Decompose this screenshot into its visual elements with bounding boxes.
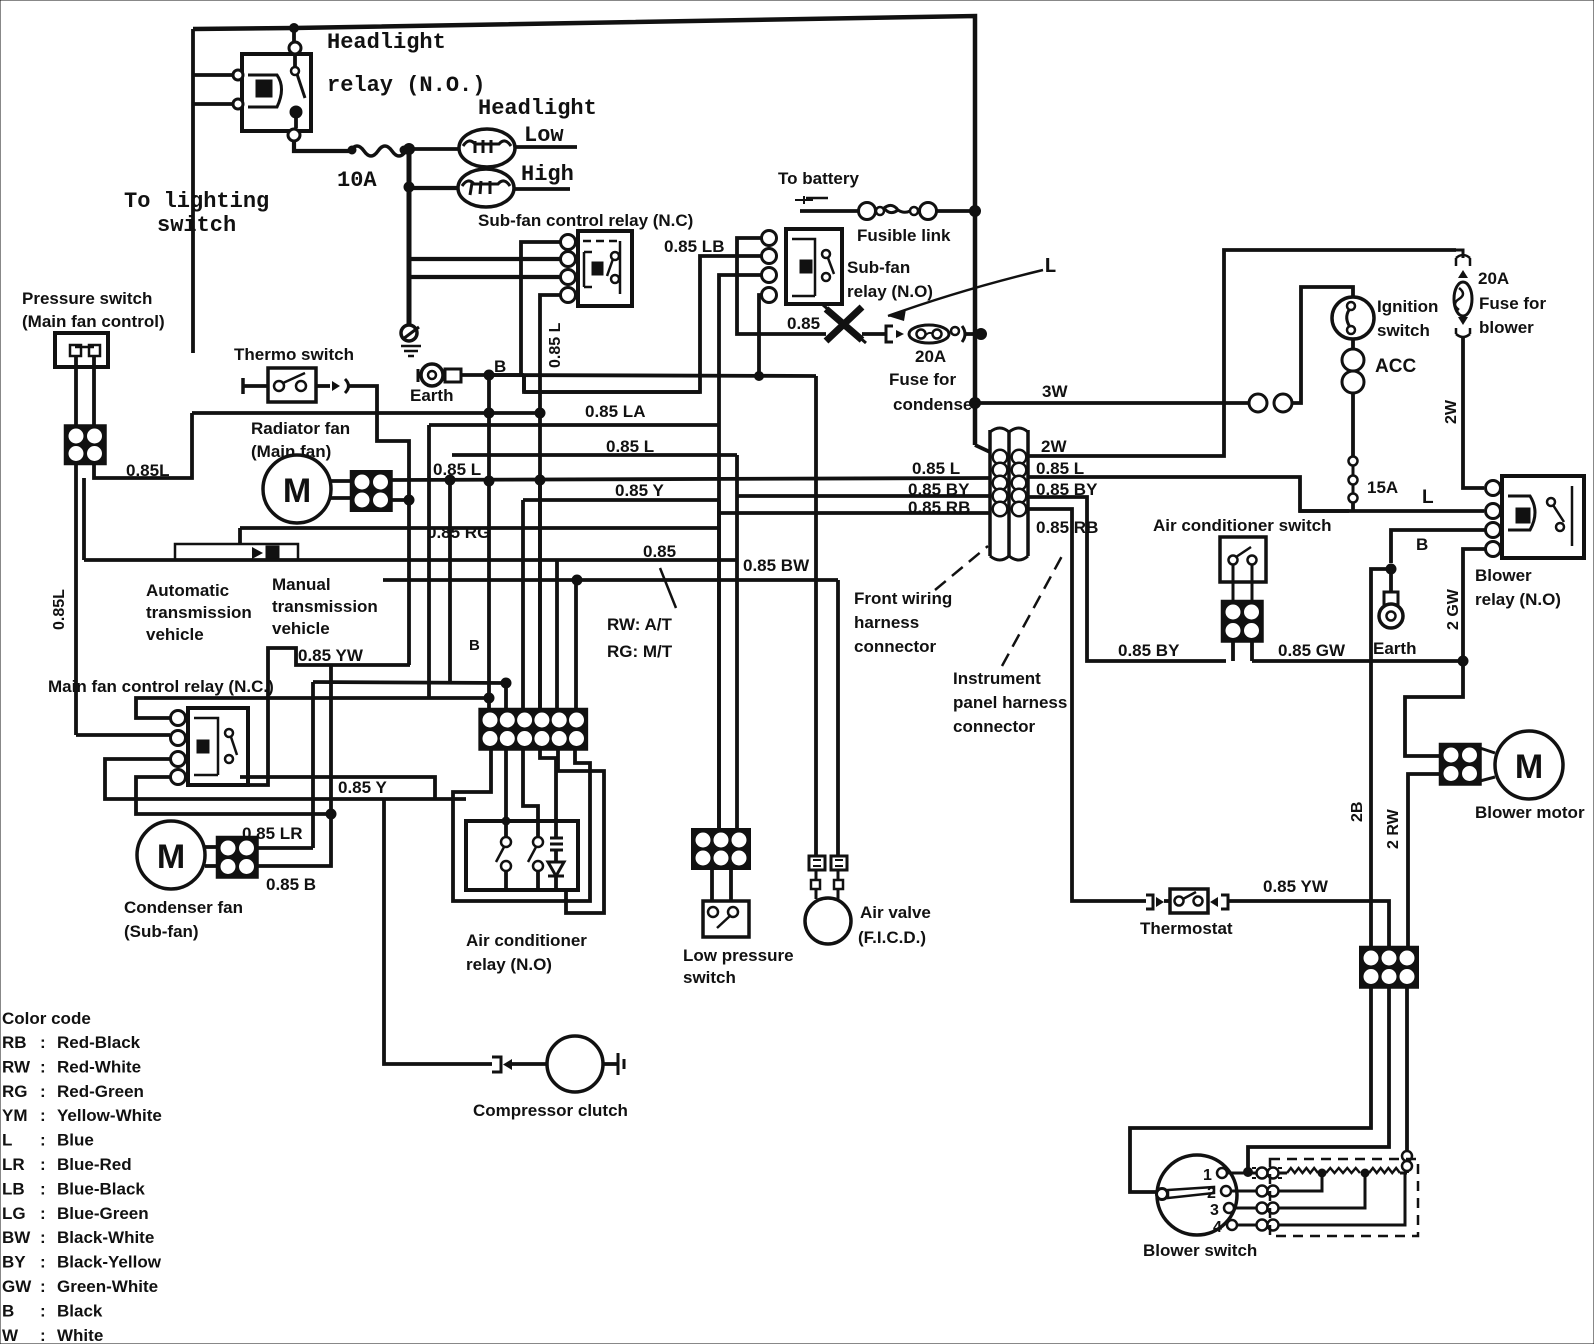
wire sub-fan relay pin1 down to 20A fuse wire [737, 238, 826, 334]
wire B line jog to sub-fan relay ground [522, 375, 526, 392]
svg-text:20A: 20A [1478, 269, 1509, 288]
svg-text:Yellow-White: Yellow-White [57, 1106, 162, 1125]
svg-text:switch: switch [157, 213, 236, 238]
contact switch2 in A/C relay [533, 837, 543, 847]
wire riser to relay coil feed [448, 480, 452, 682]
wire A/T-M/T connector stub [238, 528, 242, 544]
svg-text:panel harness: panel harness [953, 693, 1067, 712]
wire 0.85 LR riser [311, 682, 315, 848]
switch ignition switch [1332, 297, 1374, 339]
connector blower switch 2x3 [1361, 948, 1417, 987]
svg-text:0.85 LR: 0.85 LR [242, 824, 302, 843]
connector ACC pair [1342, 349, 1364, 371]
relay headlight relay (N.O.) [242, 54, 311, 131]
wire switch row1 with resistors [1227, 1172, 1256, 1175]
pin terminals sub-fan relay [762, 231, 777, 246]
ground earth below headlight branch [401, 325, 417, 341]
svg-text:LG: LG [2, 1204, 26, 1223]
svg-text:0.85 B: 0.85 B [266, 875, 316, 894]
wire main vertical into harness connector [975, 445, 990, 452]
wire pressure switch 0.85L down to relay [74, 464, 78, 735]
wire 0.85 GW line [1252, 659, 1463, 663]
wire pressure connector to long line [94, 413, 192, 478]
svg-text:blower: blower [1479, 318, 1534, 337]
svg-text:BW: BW [2, 1228, 31, 1247]
wire thick branch to control relay coil pins [408, 257, 560, 261]
svg-text:Green-White: Green-White [57, 1277, 158, 1296]
wire column3 down to connector [521, 500, 525, 711]
svg-text:2 GW: 2 GW [1445, 588, 1462, 630]
leader arrow from L to crossing [888, 270, 1043, 316]
wire 0.85 BY branch line [737, 494, 990, 498]
svg-text:2 RW: 2 RW [1385, 808, 1402, 849]
wire column5 down to connector [555, 560, 559, 711]
svg-text:0.85 Y: 0.85 Y [615, 481, 665, 500]
svg-text:Red-Black: Red-Black [57, 1033, 141, 1052]
wire 0.85 RW/RG long line [84, 558, 737, 562]
fusible link [800, 209, 860, 213]
svg-text:Blower: Blower [1475, 566, 1532, 585]
svg-text:relay (N.O.): relay (N.O.) [327, 73, 485, 98]
svg-text:(F.I.C.D.): (F.I.C.D.) [858, 928, 926, 947]
pin terminals sub-fan control relay [561, 235, 576, 250]
svg-text:To lighting: To lighting [124, 189, 269, 214]
wire earth B line [462, 373, 524, 377]
svg-text:ACC: ACC [1375, 356, 1416, 377]
wire 0.85 LA lower line [429, 423, 719, 427]
svg-text:RB: RB [2, 1033, 27, 1052]
svg-text:0.85 LA: 0.85 LA [585, 402, 645, 421]
wire headlight branch down to earth [407, 149, 412, 325]
wire 0.85 L mid line [452, 453, 737, 457]
svg-text:0.85 RG: 0.85 RG [427, 523, 490, 542]
svg-text:Manual: Manual [272, 575, 331, 594]
svg-text:Headlight: Headlight [478, 96, 597, 121]
fuse 20A for blower [1456, 250, 1463, 258]
svg-text:Color code: Color code [2, 1009, 91, 1028]
switch thermo switch [241, 378, 245, 394]
svg-text:0.85 Y: 0.85 Y [338, 778, 388, 797]
wire col3 resistor common [1405, 987, 1409, 1150]
svg-text:Low pressure: Low pressure [683, 946, 794, 965]
ground earth bolt right [1389, 569, 1393, 592]
svg-text:Radiator fan: Radiator fan [251, 419, 350, 438]
svg-text:connector: connector [854, 637, 937, 656]
svg-text:To battery: To battery [778, 169, 859, 188]
connector compressor clutch inline [492, 1057, 501, 1072]
node contact1 junction [1244, 1168, 1253, 1177]
svg-text:LR: LR [2, 1155, 25, 1174]
svg-text::: : [40, 1301, 46, 1320]
svg-text::: : [40, 1228, 46, 1247]
svg-text:10A: 10A [337, 168, 377, 193]
wire blower relay pin4 2GW down [1405, 549, 1486, 756]
wire L line to blower relay [1299, 509, 1484, 513]
motor radiator fan [263, 455, 331, 523]
resistor module dashed outline [1270, 1159, 1418, 1236]
connector front harness 12-pin [480, 710, 586, 749]
node fuse to main vertical [976, 329, 987, 340]
svg-text::: : [40, 1204, 46, 1223]
relay main fan control relay (N.C.) [188, 708, 248, 785]
wire relay output to fuse 10A [294, 141, 350, 151]
svg-text:Pressure switch: Pressure switch [22, 289, 152, 308]
wire control relay pin4 0.85 L down [540, 295, 560, 711]
node B earth junction [1386, 564, 1396, 574]
motor blower motor [1495, 731, 1563, 799]
svg-text:Sub-fan: Sub-fan [847, 258, 910, 277]
wire radiator fan long 0.85 L line [390, 478, 990, 480]
svg-text:0.85 LB: 0.85 LB [664, 237, 724, 256]
diode in A/C relay [548, 862, 564, 876]
svg-text:Blue-Red: Blue-Red [57, 1155, 132, 1174]
wire 3W riser to ignition switch [1292, 287, 1353, 403]
wire high beam lead [514, 187, 570, 191]
svg-text:0.85 YW: 0.85 YW [298, 646, 364, 665]
svg-text:0.85 RB: 0.85 RB [1036, 518, 1098, 537]
wire relay pin to switch2 [523, 748, 538, 842]
svg-text:vehicle: vehicle [146, 625, 204, 644]
wire relay pin4 stair [136, 777, 331, 814]
svg-text:0.85L: 0.85L [126, 461, 169, 480]
svg-text:B: B [469, 637, 480, 654]
svg-text:relay (N.O): relay (N.O) [466, 955, 552, 974]
svg-text:20A: 20A [915, 347, 946, 366]
svg-text:RG: RG [2, 1082, 28, 1101]
svg-text:B: B [1416, 535, 1428, 554]
svg-text:Red-White: Red-White [57, 1057, 141, 1076]
svg-text::: : [40, 1033, 46, 1052]
svg-text:Condenser fan: Condenser fan [124, 898, 243, 917]
wire column B/0.85L down to connector [487, 375, 491, 711]
relay air conditioner relay (N.O) wiring loop [453, 748, 590, 901]
wire ignition to ACC [1351, 339, 1355, 350]
valve air valve (F.I.C.D.) [805, 898, 851, 944]
svg-text:Air conditioner: Air conditioner [466, 931, 587, 950]
wire B continuation to air valve branch [489, 375, 816, 376]
svg-text::: : [40, 1106, 46, 1125]
switch low pressure switch [703, 901, 749, 937]
svg-text:High: High [521, 162, 574, 187]
wire low pressure leads [710, 868, 714, 901]
wire thermostat to blower switch connector [1228, 901, 1389, 950]
svg-text:switch: switch [1377, 321, 1430, 340]
svg-text:L: L [1044, 256, 1057, 279]
wire 0.85 Y mid line [523, 498, 719, 502]
wire 2W down to blower relay [1463, 338, 1484, 488]
wire 0.85 RG line [240, 526, 720, 530]
svg-text:M: M [157, 838, 185, 876]
svg-text:BY: BY [2, 1253, 26, 1272]
relay blower relay (N.O) [1502, 476, 1584, 558]
svg-text:Front wiring: Front wiring [854, 589, 952, 608]
node 3W branch [970, 398, 981, 409]
svg-text:Ignition: Ignition [1377, 297, 1438, 316]
svg-text:L: L [2, 1131, 12, 1150]
wire left riser of long line [82, 478, 86, 560]
leader dashes instrument panel harness connector [1002, 556, 1062, 666]
svg-text:W: W [2, 1326, 19, 1344]
clutch compressor clutch [547, 1036, 603, 1092]
wire thermo switch to junction [348, 386, 409, 665]
svg-text:Fusible link: Fusible link [857, 226, 951, 245]
wire switch row3 [1234, 1207, 1256, 1210]
svg-text:Main fan control relay (N.C.): Main fan control relay (N.C.) [48, 677, 274, 696]
svg-text:Blue: Blue [57, 1131, 94, 1150]
wire control relay pin1 to B line [521, 242, 560, 375]
connector blower motor 2x2 [1441, 745, 1480, 784]
svg-text:Sub-fan control relay (N.C): Sub-fan control relay (N.C) [478, 211, 693, 230]
connector front wiring harness connector [990, 428, 1028, 432]
wire 0.85 L from connector to blower relay L line [1028, 477, 1349, 511]
node 0.85 B junction [326, 809, 336, 819]
wire switch row4 [1237, 1224, 1256, 1227]
connector pressure switch 2x2 [66, 426, 105, 463]
wire 15A to L line [1351, 502, 1355, 511]
wire switch row2 [1231, 1190, 1256, 1193]
wire relay coil terminal 1 [193, 73, 233, 77]
wire radiator motor stubs [331, 479, 352, 483]
relay sub-fan relay (N.O) [786, 229, 842, 304]
svg-text:GW: GW [2, 1277, 32, 1296]
wire condenser motor stubs [205, 845, 218, 849]
wire low beam lead [515, 145, 577, 149]
pin terminals main fan control relay [171, 711, 186, 726]
leader to RW RG note [660, 568, 676, 608]
svg-text:4: 4 [1213, 1219, 1222, 1236]
wire relay pin3 0.85 Y stair [105, 759, 466, 799]
wire 2RW from blower motor down [1408, 774, 1442, 950]
wire 3W to ignition area [975, 401, 1249, 405]
svg-text:transmission: transmission [146, 603, 252, 622]
wire radiator connector bottom to junction [390, 498, 409, 502]
node B junction [484, 370, 494, 380]
svg-text:15A: 15A [1367, 478, 1398, 497]
svg-text:Blue-Green: Blue-Green [57, 1204, 149, 1223]
svg-text::: : [40, 1277, 46, 1296]
node 0.85 GW junction [1458, 656, 1468, 666]
wire B from blower relay to earth [1391, 530, 1486, 563]
node headlight relay feed junction [290, 24, 299, 33]
svg-text:2B: 2B [1349, 802, 1366, 822]
svg-text:Earth: Earth [1373, 639, 1416, 658]
wire 0.85 YW line [250, 648, 410, 785]
wire main battery vertical [973, 211, 978, 445]
svg-text:condenser: condenser [893, 395, 979, 414]
node 0.85L/0.85LA crossing [535, 408, 545, 418]
wire top feed from headlight relay to battery vertical [193, 16, 975, 211]
lamp headlight high [458, 169, 514, 207]
connector radiator fan 2x2 [352, 472, 391, 510]
svg-text:Fuse for: Fuse for [1479, 294, 1546, 313]
svg-text:2W: 2W [1041, 437, 1067, 456]
wire 0.85 YW riser mid [329, 665, 333, 814]
svg-text:switch: switch [683, 968, 736, 987]
svg-text:0.85: 0.85 [787, 314, 820, 333]
switch air conditioner switch [1220, 537, 1266, 582]
svg-text:RG: M/T: RG: M/T [607, 642, 673, 661]
svg-text:2W: 2W [1443, 399, 1460, 424]
svg-text:RW: A/T: RW: A/T [607, 615, 672, 634]
svg-text:Black: Black [57, 1301, 103, 1320]
wire relay coil terminal 2 [193, 102, 233, 106]
svg-text:2: 2 [1207, 1185, 1216, 1202]
wire A/C connector to BY and GW lines [1231, 640, 1235, 661]
svg-text:harness: harness [854, 613, 919, 632]
wire column4 down to connector [538, 480, 542, 711]
wire sub-fan relay pin2 loop to control relay [524, 256, 761, 392]
fuse 20A for condenser [862, 332, 886, 336]
svg-text::: : [40, 1155, 46, 1174]
svg-text:0.85 YW: 0.85 YW [1263, 877, 1329, 896]
leader dashes front wiring harness connector [935, 546, 988, 590]
svg-text:vehicle: vehicle [272, 619, 330, 638]
svg-text:RW: RW [2, 1057, 31, 1076]
svg-text:0.85 BY: 0.85 BY [1118, 641, 1180, 660]
svg-text:M: M [1515, 748, 1543, 786]
wire ACC to 15A fuse [1351, 393, 1355, 456]
wire 2W from connector to blower fuse [1028, 250, 1456, 456]
fuse 15A [1349, 457, 1358, 466]
wire 0.85 L column to low pressure [735, 455, 739, 831]
svg-text:3: 3 [1210, 1202, 1219, 1219]
wire col1 to blower switch lever [1130, 987, 1371, 1192]
switch pressure switch [55, 333, 108, 367]
wire compressor clutch feed [384, 799, 492, 1064]
svg-text:Black-White: Black-White [57, 1228, 154, 1247]
svg-text:0.85 L: 0.85 L [433, 460, 481, 479]
wire col2 to switch contact1 [1248, 987, 1389, 1171]
ground earth bolt left [445, 369, 461, 382]
svg-text:Compressor clutch: Compressor clutch [473, 1101, 628, 1120]
svg-text:1: 1 [1203, 1167, 1212, 1184]
svg-text:(Main fan control): (Main fan control) [22, 312, 165, 331]
connector A/C switch 2x2 [1223, 602, 1262, 641]
svg-text:(Sub-fan): (Sub-fan) [124, 922, 199, 941]
wire 0.85 RB branch line [719, 511, 990, 515]
svg-text:Headlight: Headlight [327, 30, 446, 55]
svg-text:0.85 BW: 0.85 BW [743, 556, 810, 575]
svg-text:Earth: Earth [410, 386, 453, 405]
connector condenser fan 2x2 [218, 838, 257, 877]
wire 0.85 Y upper stair [240, 777, 435, 799]
svg-text:Blower switch: Blower switch [1143, 1241, 1257, 1260]
wire A/C switch leads [1232, 564, 1235, 603]
switch blower switch [1157, 1155, 1237, 1235]
svg-text:Air conditioner switch: Air conditioner switch [1153, 516, 1332, 535]
svg-text:transmission: transmission [272, 597, 378, 616]
pin terminals blower relay [1486, 481, 1501, 496]
fuse 10A [350, 146, 406, 156]
wire pressure switch leads [74, 356, 78, 426]
wire 0.85 RB from connector down to thermostat [1028, 509, 1146, 901]
wire 0.85 BW line [383, 578, 838, 582]
svg-text:relay (N.O): relay (N.O) [847, 282, 933, 301]
connector air valve pins [809, 856, 825, 870]
wire column2 down to connector [313, 682, 506, 683]
svg-text:3W: 3W [1042, 382, 1068, 401]
node thermo/radiator junction [404, 495, 414, 505]
svg-text::: : [40, 1082, 46, 1101]
wire relay pin to switch1 [504, 748, 508, 842]
contact switch1 in A/C relay [501, 837, 511, 847]
wire column6 down to connector [574, 580, 578, 711]
connector pair on 3W wire [1249, 394, 1267, 412]
svg-text:relay (N.O): relay (N.O) [1475, 590, 1561, 609]
svg-text::: : [40, 1326, 46, 1344]
thermostat [1146, 895, 1153, 909]
wire condenser top row to riser [256, 846, 313, 850]
svg-text:M: M [283, 472, 311, 510]
svg-text:connector: connector [953, 717, 1036, 736]
svg-text:Air valve: Air valve [860, 903, 931, 922]
svg-text:Blue-Black: Blue-Black [57, 1179, 145, 1198]
wire 0.85 BW down to air valve [836, 580, 840, 855]
svg-text:0.85L: 0.85L [51, 589, 68, 630]
wire sub-fan relay pin3 0.85 LB down [719, 275, 761, 831]
svg-text:YM: YM [2, 1106, 28, 1125]
wire 0.85 BY from connector down to A/C switch [1028, 497, 1226, 661]
crossing mark X on condenser fuse wire [826, 307, 862, 341]
svg-text:Thermo switch: Thermo switch [234, 345, 354, 364]
svg-text:Automatic: Automatic [146, 581, 229, 600]
svg-text:White: White [57, 1326, 103, 1344]
wire relay pin to coil [540, 748, 556, 838]
wire to high beam [409, 149, 458, 188]
svg-text:Fuse for: Fuse for [889, 370, 956, 389]
node 0.85L line junction [535, 475, 545, 485]
motor condenser fan [137, 821, 205, 889]
svg-text:LB: LB [2, 1179, 25, 1198]
svg-text:Blower motor: Blower motor [1475, 803, 1585, 822]
svg-text:0.85 L: 0.85 L [547, 322, 564, 368]
connector low pressure switch 2x3 [693, 830, 749, 868]
node headlight feed junction [404, 144, 415, 155]
svg-text:Thermostat: Thermostat [1140, 919, 1233, 938]
connector inline pair on resistor common [1402, 1151, 1412, 1161]
svg-text::: : [40, 1057, 46, 1076]
wire condenser bottom row to riser [256, 814, 331, 866]
svg-text:Instrument: Instrument [953, 669, 1041, 688]
wire sub-fan relay pin4 to earth B line [759, 295, 761, 376]
svg-text::: : [40, 1179, 46, 1198]
wire 2B from earth junction down to blower switch connector [1371, 569, 1391, 950]
wire relay pin2 from pressure switch [76, 733, 170, 737]
svg-text:0.85 GW: 0.85 GW [1278, 641, 1346, 660]
coil in A/C relay [550, 838, 563, 850]
svg-text:0.85 L: 0.85 L [912, 459, 960, 478]
wire relay pin1 stair to 0.85 LR riser [136, 698, 489, 718]
svg-text:Low: Low [524, 123, 564, 148]
node fusible link junction on main vertical [970, 206, 981, 217]
wire 0.85 LB column to low pressure [717, 500, 721, 831]
svg-text:Black-Yellow: Black-Yellow [57, 1253, 162, 1272]
svg-text:B: B [2, 1301, 14, 1320]
relay sub-fan control relay (N.C) [578, 231, 632, 306]
wire to low beam [409, 147, 459, 151]
svg-text::: : [40, 1131, 46, 1150]
lamp headlight low [459, 129, 515, 167]
wire to lighting switch vertical [292, 28, 296, 47]
svg-text:Red-Green: Red-Green [57, 1082, 144, 1101]
svg-text::: : [40, 1253, 46, 1272]
svg-text:L: L [1422, 487, 1434, 508]
wire 0.85 L line upper-left to pressure switch route [427, 425, 431, 698]
relay air conditioner relay (N.O) box [466, 821, 578, 890]
